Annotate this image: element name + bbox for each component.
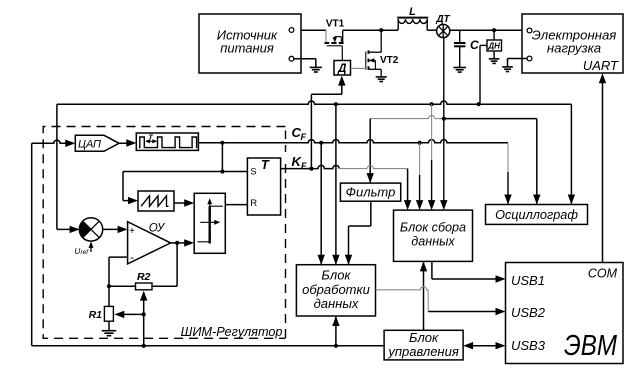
svg-text:Блок: Блок — [409, 330, 439, 345]
svg-text:COM: COM — [588, 267, 618, 281]
svg-text:данных: данных — [411, 235, 455, 249]
svg-text:F: F — [301, 161, 307, 171]
svg-text:L: L — [409, 6, 416, 18]
svg-text:обработки: обработки — [302, 282, 370, 297]
svg-text:USB2: USB2 — [511, 305, 546, 320]
svg-text:ДН: ДН — [487, 42, 500, 51]
svg-text:USB3: USB3 — [511, 338, 546, 353]
svg-text:ЦАП: ЦАП — [78, 139, 101, 151]
svg-text:ref: ref — [81, 249, 90, 256]
svg-text:управления: управления — [387, 344, 458, 359]
svg-text:Осциллограф: Осциллограф — [495, 208, 578, 222]
svg-text:питания: питания — [220, 40, 274, 55]
svg-text:VT1: VT1 — [326, 19, 345, 30]
svg-text:R1: R1 — [89, 309, 103, 321]
svg-text:R: R — [250, 198, 257, 209]
svg-text:-: - — [130, 250, 134, 264]
svg-text:Блок сбора: Блок сбора — [400, 221, 466, 235]
svg-text:Фильтр: Фильтр — [346, 185, 396, 200]
svg-text:ОУ: ОУ — [149, 223, 166, 235]
svg-text:R2: R2 — [137, 271, 151, 283]
svg-text:ЭВМ: ЭВМ — [564, 330, 618, 362]
svg-text:USB1: USB1 — [511, 273, 545, 288]
svg-text:данных: данных — [314, 296, 359, 311]
svg-text:нагрузка: нагрузка — [547, 40, 601, 55]
svg-text:+: + — [129, 226, 135, 237]
svg-text:Д: Д — [337, 63, 346, 75]
svg-text:F: F — [301, 132, 307, 142]
svg-text:S: S — [250, 167, 256, 178]
svg-text:T: T — [261, 157, 270, 172]
svg-text:ШИМ-Регулятор: ШИМ-Регулятор — [181, 325, 283, 339]
svg-text:ДТ: ДТ — [435, 14, 450, 25]
svg-text:Блок: Блок — [321, 268, 351, 283]
svg-text:VT2: VT2 — [380, 55, 399, 66]
svg-text:C: C — [470, 38, 479, 52]
svg-text:UART: UART — [583, 58, 619, 73]
